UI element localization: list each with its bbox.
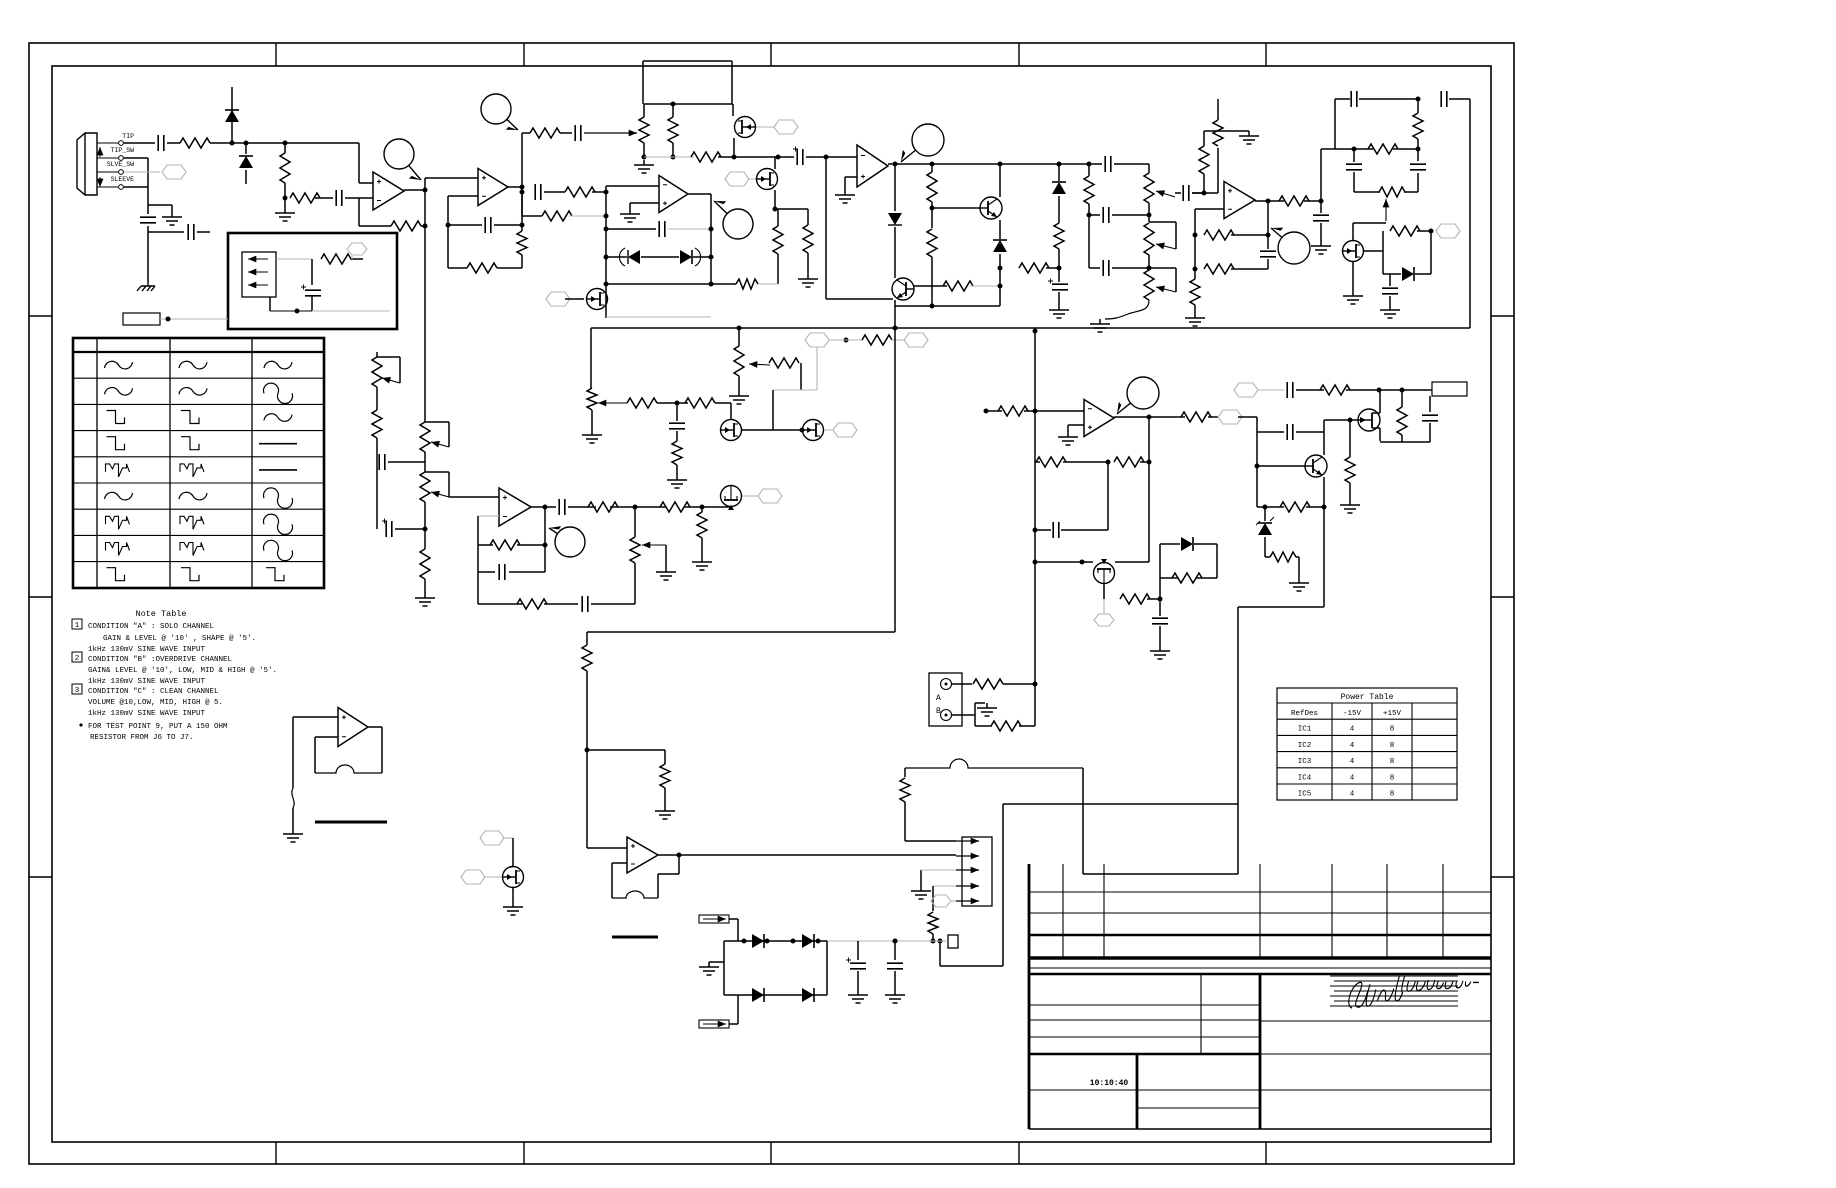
polarized capacitor: [850, 963, 866, 969]
wire: [350, 258, 363, 260]
wire: [1323, 420, 1325, 432]
wire: [931, 257, 933, 306]
wire: [951, 714, 975, 716]
wire: [1352, 262, 1354, 291]
wire: [521, 192, 523, 216]
wire: [1383, 273, 1401, 275]
wire: [606, 185, 659, 187]
wire: [709, 961, 724, 963]
wire: [97, 157, 118, 159]
wire: [1203, 174, 1205, 193]
wire: [1296, 556, 1299, 558]
border zone ticks left: [29, 315, 52, 317]
wire: [772, 390, 774, 430]
zener diode: [1258, 523, 1272, 535]
svg-text:RESISTOR FROM J6 TO J7.: RESISTOR FROM J6 TO J7.: [90, 734, 194, 742]
capacitor switch row: [669, 423, 685, 429]
waveform cell row8 col3 sine2: [264, 540, 293, 560]
wire: [1148, 255, 1150, 268]
capacitor sleeve: [188, 224, 194, 240]
wire: [999, 254, 1001, 306]
wire: [806, 156, 857, 158]
potentiometer tone mid: [1144, 223, 1154, 255]
svg-text:SLVE_SW: SLVE_SW: [107, 161, 134, 168]
wire: [124, 142, 155, 144]
wire: [701, 538, 703, 557]
wire: [1323, 477, 1325, 607]
ground mute od: [1343, 291, 1363, 304]
junction: [893, 162, 898, 167]
wire: [742, 495, 758, 497]
junction: [604, 255, 609, 260]
resistor od tag: [1390, 226, 1420, 236]
waveform cell row6 col1 sine: [105, 492, 133, 500]
wire: [676, 465, 678, 475]
junction: [1087, 162, 1092, 167]
junction: [1416, 97, 1421, 102]
wire: [1267, 201, 1269, 249]
capacitor op6 fb: [499, 564, 505, 580]
resistor reg div: [1280, 502, 1310, 512]
junction: [1348, 418, 1353, 423]
diode bridge 2: [802, 934, 814, 948]
wire: [844, 177, 846, 190]
wire: [1320, 201, 1322, 213]
wire: [1237, 607, 1239, 874]
wire: [606, 228, 656, 230]
wire: [531, 506, 556, 508]
wire: [1372, 427, 1380, 429]
wire: [377, 356, 400, 358]
wire: [1204, 130, 1249, 132]
wire: [931, 164, 933, 172]
wire: [292, 717, 294, 788]
wire: [1216, 544, 1218, 578]
wire: [1217, 99, 1219, 120]
wire: [894, 227, 896, 278]
wire: [587, 847, 627, 849]
wire: [376, 438, 378, 529]
wire: [497, 267, 522, 269]
note 3 box: [72, 684, 82, 694]
waveform cell row4 col1 square: [107, 437, 125, 450]
wire: [1068, 424, 1084, 426]
wire: [1061, 529, 1108, 531]
wire: [565, 298, 584, 300]
wire: [642, 61, 644, 104]
capacitor solo fb: [659, 221, 665, 237]
wire: [676, 431, 678, 441]
junction: [1266, 199, 1271, 204]
wire: [1024, 410, 1084, 412]
junction: [423, 527, 428, 532]
wire: [1238, 416, 1257, 418]
resistor op2 minus: [290, 193, 320, 203]
junction: [1080, 560, 1085, 565]
test point TP2: [481, 94, 511, 124]
diode bridge 4: [802, 988, 814, 1002]
title block left edge: [1028, 864, 1031, 1129]
wire: [591, 327, 1470, 329]
wire: [730, 403, 732, 419]
resistor switch row 1: [627, 398, 657, 408]
wire: [723, 941, 725, 995]
connector pin: [956, 885, 979, 887]
junction: [893, 326, 898, 331]
resistor op2 feedback: [391, 221, 421, 231]
capacitor tone 1: [1103, 207, 1109, 223]
wire: [1160, 577, 1178, 579]
wire: [688, 193, 711, 195]
wire: [826, 941, 828, 995]
capacitor op6 out: [559, 499, 565, 515]
wire: [1257, 465, 1305, 467]
wire: [1160, 543, 1180, 545]
resistor op6 out1: [588, 502, 618, 512]
wire: [1353, 172, 1355, 192]
junction: [1193, 267, 1198, 272]
resistor input shunt: [280, 153, 290, 183]
wire: [824, 429, 833, 431]
wire: [544, 191, 565, 193]
ground solo load: [692, 557, 712, 570]
wire: [504, 837, 513, 839]
junction: [816, 939, 821, 944]
wire: [1264, 556, 1266, 558]
wire: [610, 506, 666, 508]
wire: [358, 143, 360, 183]
wire: [657, 874, 659, 898]
op-amp IC3b: [659, 176, 688, 213]
test point TP1: [384, 139, 414, 169]
junction: [709, 227, 714, 232]
test point TP5: [555, 527, 585, 557]
wire: [448, 195, 478, 197]
junction: [423, 188, 428, 193]
wire: [544, 507, 546, 572]
junction: [520, 185, 525, 190]
net tag mute B: [725, 172, 749, 186]
junction: [1193, 233, 1198, 238]
wire: [284, 143, 286, 153]
junction: [1377, 388, 1382, 393]
wire: [376, 352, 378, 357]
capacitor od mute: [1382, 288, 1398, 294]
junction: [671, 155, 676, 160]
transistor clean mute: [1094, 563, 1115, 584]
svg-text:IC5: IC5: [1298, 791, 1312, 799]
wire: [1194, 209, 1196, 279]
wire: [1115, 561, 1149, 563]
title block bottom edge: [1029, 1128, 1491, 1130]
resistor switch row 2: [685, 398, 715, 408]
wire: [424, 452, 426, 472]
wire: [1255, 200, 1284, 202]
wire: [1231, 234, 1268, 236]
junction: [1057, 266, 1062, 271]
wire: [478, 544, 493, 546]
capacitor op5 fb: [1260, 251, 1276, 257]
svg-text:8: 8: [1390, 742, 1395, 750]
wire: [1035, 529, 1051, 531]
wire: [774, 157, 776, 169]
diode clip B: [680, 250, 692, 264]
wire: [231, 107, 233, 125]
wire: [606, 256, 627, 258]
wire: [1379, 390, 1381, 413]
battery holder: [242, 252, 276, 297]
waveform cell row3 col2 square: [181, 411, 199, 424]
junction: [709, 282, 714, 287]
waveform cell row1 col1 sine: [105, 361, 133, 369]
net tag main out: [1218, 410, 1242, 424]
wire: [1353, 222, 1386, 224]
junction: [677, 853, 682, 858]
waveform cell row9 col2 square: [181, 568, 199, 581]
wire: [737, 919, 739, 941]
sense box: [948, 935, 958, 948]
net tag G in: [461, 870, 485, 884]
wire: [974, 715, 976, 726]
wire rail stub: [231, 87, 233, 107]
wire: [1265, 556, 1270, 558]
title block revision grid columns: [1062, 864, 1064, 958]
wire: [448, 267, 467, 269]
svg-text:IC2: IC2: [1298, 742, 1312, 750]
svg-text:1kHz 130mV SINE WAVE INPUT: 1kHz 130mV SINE WAVE INPUT: [88, 678, 206, 686]
wire: [1231, 268, 1268, 270]
footswitch connector: [929, 673, 962, 726]
wire: [665, 545, 667, 567]
wire: [345, 197, 373, 199]
test point TP6: [1127, 377, 1159, 409]
resistor op6 fb: [490, 540, 520, 550]
wire: [512, 888, 514, 902]
junction: [1033, 329, 1038, 334]
resistor op5 gnd: [1190, 279, 1200, 305]
wire: [1217, 148, 1219, 193]
wire: [775, 208, 808, 210]
wire: [774, 190, 776, 209]
ground supply cap2: [885, 990, 905, 1003]
wire: [1321, 148, 1335, 150]
wire: [999, 220, 1001, 239]
svg-text:RefDes: RefDes: [1291, 710, 1318, 718]
chassis ground jack: [137, 282, 155, 291]
wire: [1380, 441, 1430, 443]
wire: [894, 971, 896, 990]
net tag clean mute: [1094, 614, 1114, 626]
wire: [904, 768, 906, 777]
wire: [1306, 506, 1324, 508]
wire: [478, 603, 522, 605]
waveform cell row5 col1 dist: [106, 464, 130, 477]
junction: [1057, 162, 1062, 167]
wire: [368, 726, 382, 728]
junction: [1033, 560, 1038, 565]
wire: [975, 702, 985, 704]
junction: [585, 748, 590, 753]
wire: [147, 158, 149, 187]
resistor op6 out2: [660, 502, 690, 512]
transistor switch B: [803, 420, 824, 441]
test point TP3: [912, 124, 944, 156]
potentiometer volume: [734, 346, 744, 376]
wire: [777, 209, 779, 226]
waveform cell row1 col3 sine: [264, 361, 292, 369]
wire: [315, 197, 333, 199]
diode clean mute: [1181, 537, 1193, 551]
junction: [938, 939, 943, 944]
junction: [675, 401, 680, 406]
wire: [1063, 461, 1108, 463]
ground supply cap1: [848, 990, 868, 1003]
connector pin: [956, 855, 979, 857]
capacitor drive in: [1105, 156, 1111, 172]
junction: [1400, 388, 1405, 393]
svg-text:8: 8: [1390, 791, 1395, 799]
diode clamp lower: [239, 156, 253, 168]
wire: [826, 298, 893, 300]
svg-text:10:10:40: 10:10:40: [1090, 1079, 1129, 1088]
wire: [891, 339, 905, 341]
wire: [1256, 417, 1258, 432]
wire: [1346, 389, 1432, 391]
board link: [123, 313, 160, 325]
wire: [1159, 599, 1161, 616]
polarized capacitor drive: [1052, 284, 1068, 290]
wire: [1382, 231, 1384, 274]
wire: [729, 1023, 738, 1025]
svg-text:GAIN& LEVEL @ '10', LOW, MID: GAIN& LEVEL @ '10', LOW, MID & HIGH @ '5…: [88, 667, 277, 675]
capacitor solo in: [535, 184, 541, 200]
wire: [1352, 223, 1354, 240]
wire: [124, 157, 148, 159]
resistor op3 fb low: [467, 263, 497, 273]
junction: [1416, 147, 1421, 152]
op-amp IC1c: [478, 169, 508, 206]
diode drive: [1052, 182, 1066, 194]
wire: [591, 410, 593, 430]
wire: [1103, 584, 1105, 599]
wire: [606, 283, 736, 285]
capacitor input: [158, 135, 164, 151]
resistor shape top: [668, 117, 678, 143]
wire: [231, 125, 233, 143]
wire: [1389, 274, 1391, 286]
wire: [1335, 148, 1373, 150]
resistor mixer in: [582, 645, 592, 671]
junction: [930, 162, 935, 167]
wire: [894, 164, 896, 211]
wire: [276, 258, 312, 260]
waveform cell row9 col1 square: [107, 568, 125, 581]
battery holder pin: [248, 258, 268, 260]
wire: [731, 61, 733, 104]
net tag bus B: [904, 333, 928, 347]
wire: [975, 725, 992, 727]
title block inner verticals: [1200, 974, 1202, 1054]
wire: [1159, 544, 1161, 599]
polarized capacitor: [305, 290, 321, 296]
volume wiper: [749, 364, 770, 365]
net tag pin5: [931, 895, 951, 907]
wire: [293, 716, 338, 718]
wire: [1035, 461, 1040, 463]
junction: [737, 326, 742, 331]
shape pot wiper: [584, 132, 637, 134]
svg-text:1kHz 130mV SINE WAVE INPUT: 1kHz 130mV SINE WAVE INPUT: [88, 646, 206, 654]
wire: [715, 402, 731, 404]
potentiometer fb: [1379, 187, 1405, 197]
junction: [244, 141, 249, 146]
wire clean bus: [1034, 331, 1036, 726]
wire: [678, 855, 680, 874]
wire: [999, 164, 1001, 197]
wire: [1088, 164, 1090, 176]
fb pot wiper: [1385, 199, 1387, 221]
wire: [1114, 416, 1185, 418]
wire: [974, 703, 976, 715]
wire: [1417, 149, 1419, 161]
junction: [1033, 528, 1038, 533]
wire: [951, 900, 956, 902]
wire: [630, 202, 659, 204]
wire: [424, 502, 426, 529]
waveform cell row9 col3 square: [266, 568, 284, 581]
transistor Q1: [980, 197, 1002, 219]
wire: [425, 421, 449, 423]
wire: [269, 297, 271, 311]
wire: [1159, 626, 1161, 646]
battery box outline: [228, 233, 397, 329]
junction: [543, 505, 548, 510]
wire: [658, 854, 956, 856]
wire: [1304, 200, 1321, 202]
capacitor od out: [1183, 185, 1189, 201]
op-amp IC2a: [857, 145, 888, 187]
svg-text:4: 4: [1350, 758, 1355, 766]
resistor bias lower: [927, 229, 937, 257]
junction: [423, 224, 428, 229]
wire: [544, 603, 578, 605]
svg-text:4: 4: [1350, 726, 1355, 734]
wire: [664, 750, 666, 764]
wire: [1112, 267, 1149, 269]
title block main box: [1029, 967, 1491, 969]
wire: [425, 177, 478, 179]
wire: [1196, 577, 1217, 579]
junction: [709, 255, 714, 260]
junction: [1429, 229, 1434, 234]
wire: [448, 472, 450, 497]
wire: [424, 579, 426, 593]
ground solo op: [620, 209, 640, 222]
wire: [447, 196, 449, 268]
svg-text:TIP_SW: TIP_SW: [111, 147, 135, 154]
wire: [1393, 148, 1418, 150]
resistor op8 out: [1181, 412, 1211, 422]
waveform cell row4 col3 flat: [259, 443, 297, 445]
junction: [1158, 597, 1163, 602]
wire: [1058, 164, 1060, 181]
resistor op5 bias: [1199, 146, 1209, 174]
svg-text:Power Table: Power Table: [1341, 693, 1394, 702]
note 2 box: [72, 652, 82, 662]
resistor reg in: [1320, 385, 1350, 395]
wire: [932, 934, 934, 941]
capacitor fb box 2: [1441, 91, 1447, 107]
